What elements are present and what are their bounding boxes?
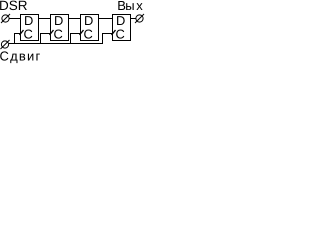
svg-text:C: C [24,26,33,41]
svg-text:DSR: DSR [0,0,28,13]
svg-text:х: х [136,0,143,13]
svg-text:C: C [54,26,63,41]
svg-text:ы: ы [125,0,134,13]
svg-text:C: C [84,26,93,41]
svg-text:Сдвиг: Сдвиг [0,48,41,63]
svg-text:C: C [116,26,125,41]
